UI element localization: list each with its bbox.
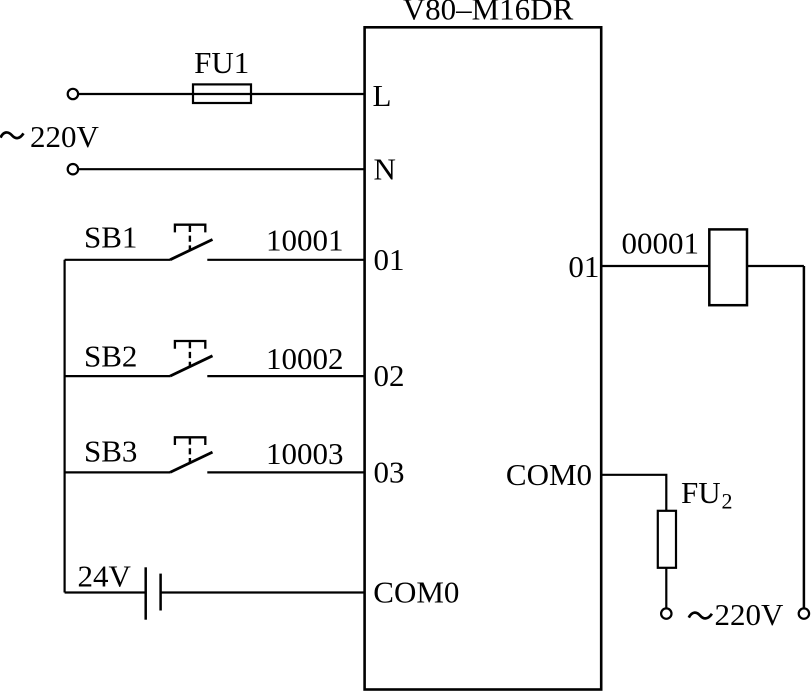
switch SB3 (push button NO) — [65, 437, 365, 472]
svg-text:02: 02 — [374, 358, 405, 393]
wire L — [78, 93, 364, 95]
svg-text:FU: FU — [681, 475, 721, 510]
svg-text:FU1: FU1 — [194, 45, 249, 80]
PLC module box U1 (V80-M16DR) — [365, 27, 602, 689]
svg-text:03: 03 — [374, 454, 405, 489]
fuse FU2 — [658, 511, 676, 568]
svg-text:10003: 10003 — [266, 436, 344, 471]
terminal circle: right rail bottom — [799, 608, 809, 618]
wire coil to right rail — [747, 265, 804, 267]
svg-text:24V: 24V — [78, 558, 132, 593]
terminal circle: neutral supply — [68, 164, 78, 174]
wire N — [78, 168, 364, 170]
svg-text:10001: 10001 — [266, 222, 344, 257]
svg-text:01: 01 — [568, 249, 599, 284]
svg-text:220V: 220V — [715, 597, 785, 632]
svg-text:COM0: COM0 — [373, 575, 459, 610]
svg-text:V80–M16DR: V80–M16DR — [403, 0, 574, 27]
relay coil KM — [709, 229, 747, 305]
svg-text:L: L — [373, 78, 392, 113]
svg-text:00001: 00001 — [622, 225, 700, 260]
wire COM0 output — [601, 475, 666, 511]
terminal circle: line supply top — [68, 89, 78, 99]
fuse FU1 — [193, 84, 251, 103]
label FU2 — [681, 475, 733, 514]
label ~220V left — [1, 119, 100, 154]
svg-text:SB1: SB1 — [84, 220, 137, 255]
wire fuse to terminal — [665, 568, 667, 609]
svg-text:2: 2 — [722, 489, 733, 514]
svg-text:SB3: SB3 — [84, 433, 137, 468]
svg-text:10002: 10002 — [266, 341, 344, 376]
svg-text:COM0: COM0 — [506, 457, 592, 492]
battery 24V — [65, 567, 365, 619]
svg-text:220V: 220V — [30, 119, 100, 154]
svg-text:01: 01 — [374, 242, 405, 277]
switch SB2 (push button NO) — [65, 341, 365, 376]
switch SB1 (push button NO) — [65, 225, 365, 260]
svg-text:SB2: SB2 — [84, 339, 137, 374]
wire output 01 — [601, 265, 709, 267]
right rail wire — [803, 266, 806, 608]
svg-text:N: N — [374, 152, 396, 187]
left bus wire — [63, 260, 65, 593]
terminal circle: COM0 branch bottom — [661, 608, 671, 618]
label ~220V right — [689, 597, 784, 632]
